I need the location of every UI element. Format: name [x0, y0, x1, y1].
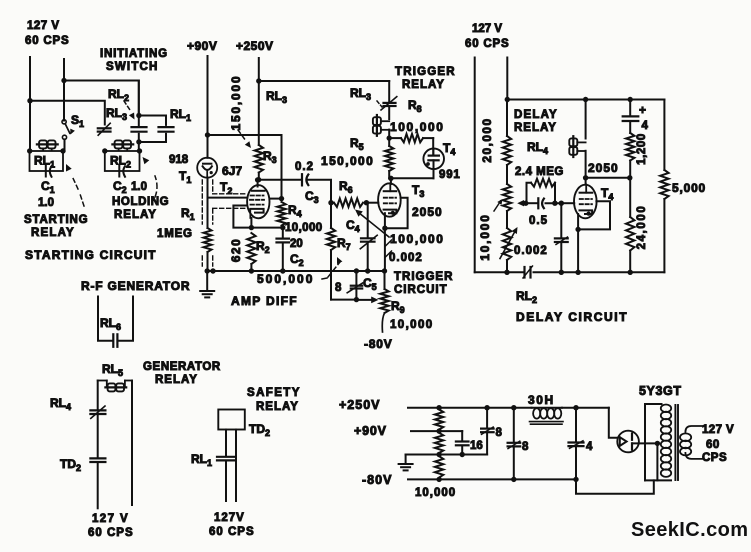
node RL1 top-left dot [27, 148, 32, 153]
svg-text:RELAY: RELAY [31, 227, 75, 239]
node B junction dot [27, 98, 32, 103]
svg-text:RL5: RL5 [102, 362, 123, 378]
node RL1 top-right dot [60, 148, 65, 153]
resistor 10,000 pot upper [506, 165, 508, 184]
svg-text:C2: C2 [113, 179, 127, 195]
tube T2 grid dashes row3 [251, 204, 264, 206]
tube T2 grid dashes row2 [250, 199, 264, 201]
svg-text:R9: R9 [391, 299, 405, 315]
node xfmr tap dot [655, 441, 660, 446]
wire -80V step to transformer [576, 479, 654, 493]
svg-text:60 CPS: 60 CPS [465, 38, 509, 50]
svg-text:5,000: 5,000 [672, 181, 706, 195]
tube delay T4 grid dashes row1 [580, 198, 592, 200]
wire rect feeder [609, 408, 617, 438]
wire right 127V feeder [63, 59, 65, 121]
resistor 2.4MEG loop [527, 183, 532, 204]
capacitor C2 (cathode) [282, 228, 284, 238]
rail -80V [408, 478, 576, 480]
leader arrow starting relay [80, 194, 84, 206]
svg-text:500,000: 500,000 [257, 272, 314, 286]
svg-text:991: 991 [439, 169, 461, 181]
svg-text:C2: C2 [290, 252, 304, 268]
node delay shield dot [575, 227, 580, 232]
wire gen relay left lower [97, 416, 99, 457]
node delay rail left dot [505, 97, 510, 102]
relay RL2 box [105, 151, 140, 171]
leader arrow 150000 to R3 [238, 130, 246, 141]
capacitor RL2 delay contact [523, 267, 525, 278]
wire RL2 contact branch upper [138, 81, 140, 126]
node RL2 top-left dot [102, 148, 107, 153]
svg-text:SeekIC.com: SeekIC.com [631, 519, 748, 541]
wire primary left leg [644, 404, 646, 480]
svg-text:6J7: 6J7 [222, 164, 242, 178]
svg-text:127 V: 127 V [92, 513, 129, 525]
tube T3 2050 envelope [378, 183, 401, 216]
svg-text:RELAY: RELAY [155, 374, 198, 386]
svg-text:127 V: 127 V [702, 424, 734, 436]
svg-text:R8: R8 [408, 98, 422, 114]
svg-text:HOLDING: HOLDING [112, 196, 169, 208]
wire gen relay left [97, 381, 99, 409]
svg-text:-80V: -80V [362, 473, 392, 487]
svg-text:R5: R5 [350, 136, 364, 152]
wire RL3 rail corner down [388, 81, 390, 101]
node rail R1 dot [205, 268, 210, 273]
node trigger node dot [387, 135, 392, 140]
svg-text:RL3: RL3 [266, 89, 287, 105]
wire initiating-switch top rail [64, 81, 139, 117]
rail +250V right [562, 407, 609, 409]
svg-text:STARTING: STARTING [24, 214, 88, 226]
wire primary top [645, 403, 662, 405]
svg-text:-80V: -80V [364, 337, 393, 351]
svg-text:+90V: +90V [187, 39, 217, 53]
svg-text:T4: T4 [601, 186, 613, 202]
node rail T3k dot [382, 268, 387, 273]
node A junction dot [61, 78, 66, 83]
wire R1 to ground rail [207, 252, 209, 271]
svg-text:RL1: RL1 [191, 452, 212, 468]
wire wiper arrow to R9 [356, 299, 372, 301]
relay RL1 box [30, 151, 64, 171]
node rail shield dot [210, 268, 215, 273]
switch S1 [62, 120, 66, 124]
node ps2 dot [484, 405, 489, 410]
svg-text:1.0: 1.0 [131, 181, 147, 193]
resistor 24000 [629, 178, 631, 217]
wiper arrow delay [522, 202, 526, 204]
svg-text:10,000: 10,000 [285, 222, 323, 234]
relay RL2 coil [115, 140, 123, 148]
wire +90V feeder [207, 56, 209, 158]
tube T3 grid dashes row1 [384, 197, 396, 199]
node T3 shield dot [382, 226, 387, 231]
resistor R8 [389, 137, 401, 139]
shield dashed box top [213, 193, 246, 195]
tube 5Y3 envelope [617, 431, 639, 453]
wire plate node to C3 [259, 179, 302, 181]
wire +90V tap [411, 430, 439, 432]
tube T3 cathode [384, 210, 397, 214]
node cathode dot [249, 225, 254, 230]
svg-text:DELAY CIRCUIT: DELAY CIRCUIT [516, 310, 628, 324]
node delay plate dot [583, 175, 588, 180]
wire xfmr tap down [656, 443, 658, 480]
transformer core [674, 405, 676, 480]
tube delay T4 plate bar [580, 192, 593, 194]
wire cap 0.5 right [546, 202, 562, 204]
svg-text:60 CPS: 60 CPS [209, 526, 255, 538]
node T3 plate dot [388, 176, 393, 181]
rail delay bottom [475, 271, 524, 273]
capacitor 8 no2 [513, 408, 515, 442]
capacitor trigger contact (variable) [384, 102, 396, 104]
leader arrow 100000 to R6 [361, 215, 389, 238]
svg-text:0.002: 0.002 [389, 252, 423, 264]
wire RL3 coil rail [259, 80, 389, 82]
svg-text:10,000: 10,000 [478, 213, 492, 261]
resistor R2 [247, 233, 255, 264]
wire ground line ps [406, 454, 488, 456]
wire plate to divider [586, 177, 630, 179]
tube T4 2050 envelope (delay) [574, 185, 597, 219]
capacitor 4 (delay +) [629, 100, 631, 115]
wire safety right [235, 430, 237, 502]
transformer primary coil [661, 405, 671, 413]
phototube cathode arc [203, 166, 212, 170]
shield dashed box bottom [213, 207, 246, 209]
svg-text:S1: S1 [71, 113, 84, 129]
node R4 top dot [279, 196, 284, 201]
relay RL1 coil [39, 140, 47, 148]
svg-text:1MEG: 1MEG [157, 228, 193, 240]
capacitor C5 (variable trimmer) [355, 271, 357, 284]
wire C3 to grid node [309, 180, 332, 203]
wire T3 cathode down [384, 213, 386, 271]
wire RF bracket [98, 297, 112, 341]
node RL2 top-right dot [137, 148, 142, 153]
svg-text:60: 60 [706, 439, 720, 451]
rail amp-diff bottom [207, 270, 385, 272]
wire T2 plate out [270, 198, 282, 200]
svg-text:2050: 2050 [588, 161, 619, 175]
svg-text:R6: R6 [339, 179, 353, 195]
svg-text:STARTING CIRCUIT: STARTING CIRCUIT [25, 248, 157, 262]
svg-text:C3: C3 [305, 189, 319, 205]
svg-text:1,200: 1,200 [636, 133, 648, 165]
tube T2 6J7 envelope [247, 185, 269, 218]
wire delay cathode down [577, 214, 579, 272]
capacitor 8 no1 [486, 408, 488, 427]
capacitor TD2 contact [90, 457, 105, 459]
svg-text:+90V: +90V [354, 424, 387, 438]
resistor R7 [330, 203, 332, 228]
svg-text:150,000: 150,000 [229, 75, 243, 131]
svg-text:TD2: TD2 [60, 457, 81, 473]
node bleeder bottom dot [436, 477, 441, 482]
tube delay T4 cathode blob [587, 212, 591, 216]
svg-text:R4: R4 [288, 203, 302, 219]
svg-text:4: 4 [586, 441, 593, 453]
wire R2 to rail [250, 264, 252, 271]
tube 5Y3 plate bars [631, 434, 633, 440]
ground (ps) [405, 455, 407, 465]
svg-text:R-F GENERATOR: R-F GENERATOR [81, 279, 190, 293]
svg-text:100,000: 100,000 [390, 232, 445, 246]
capacitor C2 (in RL2 box) [118, 166, 120, 177]
svg-text:TRIGGER: TRIGGER [395, 66, 456, 78]
relay TD2 box [218, 410, 245, 430]
svg-text:60 CPS: 60 CPS [88, 527, 134, 539]
capacitor RL4 contact (variable) [90, 409, 105, 411]
phototube T1 918 envelope [197, 158, 217, 178]
resistor 10,000 bleeder sec3 [435, 456, 443, 477]
svg-text:RL4: RL4 [527, 140, 548, 156]
svg-text:DELAY: DELAY [514, 109, 558, 121]
wire cap bridge top [139, 115, 166, 117]
node divider dot [627, 175, 632, 180]
node RL4 top dot [583, 97, 588, 102]
svg-text:T1: T1 [179, 169, 191, 185]
node rail R2 dot [249, 268, 254, 273]
resistor R3 [255, 145, 263, 173]
svg-text:AMP DIFF: AMP DIFF [231, 294, 298, 308]
tube T2 grid dashes row1 [251, 195, 264, 197]
svg-text:T2: T2 [220, 180, 232, 196]
svg-text:16: 16 [470, 440, 483, 452]
capacitor C1 (in RL1 box) [45, 166, 47, 177]
tube 991 plate bar1 [429, 155, 439, 157]
capacitor RL3 contact (variable) [98, 127, 111, 129]
node ps4 dot [573, 405, 578, 410]
svg-text:0.002: 0.002 [514, 245, 548, 257]
svg-text:8: 8 [496, 427, 503, 439]
resistor 10,000 bleeder sec2 [435, 433, 443, 453]
node R4 bottom dot [280, 225, 285, 230]
node gnd line dots [460, 452, 465, 457]
svg-text:CIRCUIT: CIRCUIT [394, 284, 448, 296]
capacitor 0.5 [537, 198, 539, 208]
shield dashed left [201, 180, 203, 224]
svg-text:RELAY: RELAY [514, 122, 557, 134]
svg-text:T4: T4 [443, 141, 455, 157]
wire safety left [225, 430, 227, 457]
node 0.5 right dot [552, 201, 557, 206]
svg-text:2.4 MEG: 2.4 MEG [515, 166, 564, 178]
svg-text:R2: R2 [256, 239, 270, 255]
wire S1 to RL1 [64, 139, 66, 151]
svg-text:24,000: 24,000 [636, 205, 648, 250]
svg-text:C4: C4 [346, 218, 360, 234]
capacitor RL6 contact [112, 334, 114, 347]
leader arrow holding relay [155, 176, 157, 197]
resistor 1200 [626, 133, 634, 161]
svg-text:T3: T3 [412, 183, 424, 199]
wire T2 cathode down [250, 218, 252, 228]
svg-text:127V: 127V [214, 512, 245, 524]
svg-text:918: 918 [169, 154, 189, 166]
svg-text:RELAY: RELAY [402, 79, 445, 91]
tube T3 grid dashes row2 [384, 202, 396, 204]
svg-text:RL3: RL3 [106, 106, 127, 122]
svg-text:INITIATING: INITIATING [100, 48, 168, 60]
resistor R6 [334, 199, 363, 207]
svg-text:8: 8 [335, 282, 342, 294]
tube 5Y3 filament [620, 437, 627, 446]
svg-text:C1: C1 [41, 179, 55, 195]
shield dashed right [212, 180, 214, 192]
wire T3 plate rail [389, 177, 433, 179]
capacitor 16 [456, 440, 469, 442]
tube 991 plate bar2 [428, 159, 438, 161]
svg-text:R7: R7 [337, 236, 351, 252]
resistor 5000 [663, 100, 665, 171]
rail +250V [408, 407, 532, 409]
svg-text:RL2: RL2 [516, 289, 537, 305]
wire 5Y3 out [633, 442, 657, 444]
wire wiper to cap 0.5 [526, 202, 537, 204]
wire delay right feeder [506, 58, 508, 100]
node tube top dot [255, 177, 260, 182]
node R6 right dot [364, 200, 369, 205]
resistor R9 [384, 271, 386, 289]
wire grid lead to 6J7 [208, 197, 248, 199]
tube delay T4 cathode [580, 210, 593, 214]
node tap2 dot [436, 452, 441, 457]
wire left 127V feeder [29, 57, 31, 151]
node rail C2 dot [280, 268, 285, 273]
svg-text:RL2: RL2 [108, 87, 129, 103]
svg-text:SWITCH: SWITCH [106, 61, 159, 73]
tube T3 plate bar [384, 190, 397, 192]
svg-text:R1: R1 [181, 206, 195, 222]
wire T3 top stem [390, 178, 392, 184]
wire 918 cathode down to R1 [207, 178, 209, 229]
wire R3 to plate node [258, 173, 260, 180]
svg-text:+250V: +250V [339, 398, 381, 412]
wire to RL3 contact [30, 101, 105, 125]
node plate junction dot [256, 177, 261, 182]
rail delay top [507, 99, 664, 101]
inductor 30H [532, 407, 563, 409]
node delay bottom dots [504, 270, 509, 275]
svg-text:RL6: RL6 [100, 316, 121, 332]
relay RL5 coil+box top [98, 380, 107, 382]
node grid junction dot [328, 200, 333, 205]
wire +250V feeder [258, 58, 260, 145]
node ps3 dot [511, 405, 516, 410]
wire gen relay right [131, 381, 133, 506]
wire T3 grid right loop [385, 198, 408, 229]
resistor lower variable [506, 211, 508, 228]
wire +90V to screen [208, 135, 282, 199]
tube T3 cathode blob [391, 211, 395, 215]
svg-text:RL4: RL4 [50, 396, 71, 412]
svg-text:5Y3GT: 5Y3GT [639, 384, 682, 398]
svg-text:TRIGGER: TRIGGER [394, 271, 453, 283]
wire R8 to T4 [432, 138, 434, 155]
svg-text:RELAY: RELAY [114, 209, 157, 221]
svg-text:2050: 2050 [412, 205, 443, 219]
wire R6 to T3 grid [366, 202, 378, 204]
node tap1 dot [436, 428, 441, 433]
wire safety left tail [225, 462, 227, 501]
capacitor C4 (variable) [367, 203, 369, 237]
svg-text:10,000: 10,000 [415, 487, 456, 499]
node grid node dot [559, 201, 564, 206]
capacitor C3 [301, 174, 303, 185]
tube T2 plate bar [252, 190, 265, 192]
svg-text:CPS: CPS [702, 452, 727, 464]
resistor R5 [388, 138, 390, 146]
svg-text:RELAY: RELAY [256, 401, 299, 413]
node delay cap4 top dot [628, 97, 633, 102]
wire delay grid right loop [578, 201, 610, 229]
leader arrow RL2 to contact [124, 101, 130, 110]
svg-text:620: 620 [229, 238, 243, 263]
svg-text:0.2: 0.2 [295, 161, 314, 173]
svg-text:150,000: 150,000 [321, 154, 374, 168]
capacitor 4 (ps) [575, 408, 577, 441]
node rail C5 dot [354, 268, 359, 273]
wire T2 suppressor loop [233, 206, 282, 228]
svg-text:RL3: RL3 [350, 86, 371, 102]
svg-text:RL1: RL1 [170, 107, 191, 123]
phototube pin dot [210, 171, 213, 174]
wire grid node to T4 [561, 202, 574, 204]
svg-text:0.5: 0.5 [529, 215, 548, 227]
wire contact to coil [388, 108, 390, 120]
leader RL3 tick [377, 101, 382, 107]
transformer secondary coil [685, 426, 703, 432]
node +90V junction dot [205, 132, 210, 137]
svg-text:127 V: 127 V [27, 20, 60, 32]
ground (amp diff) [206, 271, 208, 291]
resistor R1 [204, 228, 212, 252]
svg-text:SAFETY: SAFETY [247, 387, 301, 399]
svg-text:8: 8 [522, 441, 529, 453]
capacitor RL2 holding contact [132, 126, 147, 128]
node ps1 dot [436, 405, 441, 410]
relay coil RL4 [569, 138, 577, 146]
node C junction dot [136, 113, 141, 118]
svg-text:10,000: 10,000 [390, 319, 434, 331]
svg-text:+: + [639, 103, 646, 117]
tube 991 pin dot [426, 162, 430, 166]
leader arrow 500000 to R7 [328, 262, 340, 277]
node -80V dots [511, 477, 516, 482]
resistor R4 [277, 202, 285, 226]
resistor 10,000 bleeder sec1 [435, 410, 443, 430]
svg-text:127 V: 127 V [472, 23, 502, 35]
wire primary bottom [645, 479, 671, 481]
capacitor RL1 contact (right) [165, 116, 167, 125]
svg-text:C5: C5 [363, 276, 377, 292]
tube T4 991 envelope [423, 149, 444, 170]
svg-text:TD2: TD2 [249, 422, 270, 438]
svg-text:30H: 30H [528, 393, 555, 407]
wire 991 bottom [433, 160, 435, 178]
relay coil trigger [373, 117, 381, 125]
tube delay T4 grid dashes row2 [580, 203, 592, 205]
phototube anode bar [203, 163, 211, 165]
node D junction dot [136, 139, 141, 144]
node wiper dot [354, 297, 359, 302]
svg-text:1.0: 1.0 [38, 197, 54, 209]
node +250V junction dot [256, 78, 261, 83]
